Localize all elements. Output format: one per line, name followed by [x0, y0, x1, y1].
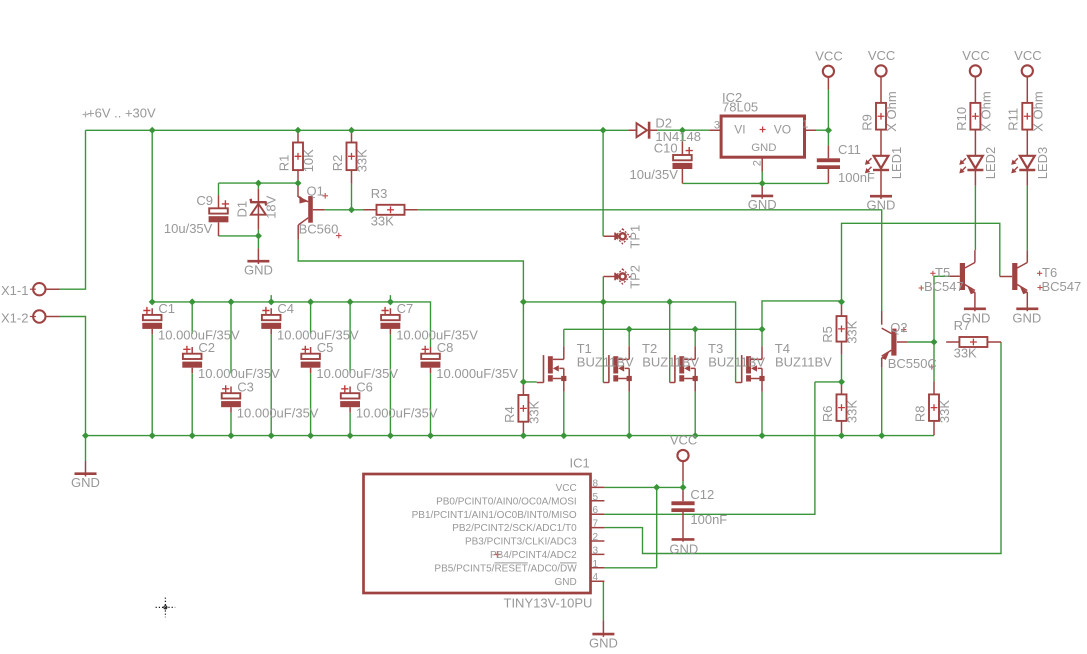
svg-text:TP1: TP1 [627, 225, 642, 249]
svg-text:GND: GND [748, 197, 777, 212]
svg-text:78L05: 78L05 [722, 100, 758, 115]
svg-text:33K: 33K [845, 320, 860, 343]
svg-text:LED3: LED3 [1035, 147, 1050, 180]
svg-text:D1: D1 [234, 201, 249, 218]
svg-text:BC560: BC560 [299, 222, 339, 237]
svg-text:VCC: VCC [670, 433, 697, 448]
svg-text:PB4/PCINT4/ADC2: PB4/PCINT4/ADC2 [490, 550, 577, 561]
svg-text:3: 3 [714, 119, 720, 131]
svg-text:R8: R8 [912, 405, 927, 422]
svg-text:33K: 33K [371, 213, 394, 228]
svg-text:VCC: VCC [868, 48, 895, 63]
svg-text:C6: C6 [356, 380, 373, 395]
svg-text:PB1/PCINT1/AIN1/OC0B/INT0/MISO: PB1/PCINT1/AIN1/OC0B/INT0/MISO [412, 510, 577, 521]
svg-text:10.000uF/35V: 10.000uF/35V [356, 406, 438, 421]
svg-text:1: 1 [593, 559, 599, 570]
svg-text:Q2: Q2 [890, 320, 907, 335]
svg-text:C9: C9 [196, 193, 213, 208]
svg-text:100nF: 100nF [690, 512, 727, 527]
svg-text:PB3/PCINT3/CLKI/ADC3: PB3/PCINT3/CLKI/ADC3 [465, 537, 577, 548]
svg-text:VCC: VCC [962, 48, 989, 63]
svg-text:C12: C12 [690, 487, 714, 502]
svg-text:GND: GND [71, 475, 100, 490]
svg-text:3: 3 [593, 545, 599, 556]
svg-text:GND: GND [867, 197, 896, 212]
svg-text:10u/35V: 10u/35V [164, 221, 213, 236]
svg-text:33K: 33K [527, 400, 542, 423]
svg-text:BUZ11BV: BUZ11BV [708, 355, 765, 370]
svg-text:33K: 33K [355, 149, 370, 172]
svg-text:R6: R6 [820, 405, 835, 422]
svg-text:C2: C2 [198, 340, 215, 355]
svg-text:GND: GND [589, 635, 618, 650]
svg-text:TINY13V-10PU: TINY13V-10PU [504, 596, 593, 611]
svg-text:X Ohm: X Ohm [884, 91, 899, 131]
svg-text:C11: C11 [838, 142, 861, 157]
svg-text:33K: 33K [954, 346, 977, 361]
svg-text:7: 7 [593, 519, 599, 530]
svg-text:BC547: BC547 [1042, 279, 1082, 294]
svg-text:33K: 33K [937, 400, 952, 423]
svg-text:10.000uF/35V: 10.000uF/35V [237, 406, 319, 421]
svg-text:10u/35V: 10u/35V [630, 167, 679, 182]
svg-text:GND: GND [961, 311, 990, 326]
svg-text:PB5/PCINT5/RESET/ADC0/DW: PB5/PCINT5/RESET/ADC0/DW [434, 563, 577, 574]
svg-text:10K: 10K [301, 149, 316, 172]
svg-text:C3: C3 [237, 380, 254, 395]
svg-text:TP2: TP2 [627, 265, 642, 289]
svg-text:VI: VI [734, 123, 745, 137]
svg-text:2: 2 [751, 160, 763, 166]
svg-text:2: 2 [593, 532, 599, 543]
svg-text:R10: R10 [954, 107, 969, 131]
svg-text:BC550C: BC550C [888, 356, 937, 371]
svg-text:4: 4 [593, 572, 599, 583]
svg-text:GND: GND [244, 262, 273, 277]
svg-text:X Ohm: X Ohm [1031, 91, 1046, 131]
svg-text:GND: GND [669, 542, 698, 557]
svg-text:PB2/PCINT2/SCK/ADC1/T0: PB2/PCINT2/SCK/ADC1/T0 [452, 523, 577, 534]
svg-text:VCC: VCC [815, 49, 842, 64]
svg-text:BUZ11BV: BUZ11BV [775, 355, 832, 370]
svg-text:PB0/PCINT0/AIN0/OC0A/MOSI: PB0/PCINT0/AIN0/OC0A/MOSI [436, 496, 577, 507]
svg-text:LED1: LED1 [889, 147, 904, 180]
svg-text:6: 6 [593, 505, 599, 516]
svg-text:VCC: VCC [1014, 48, 1041, 63]
svg-text:C4: C4 [277, 301, 294, 316]
svg-text:8: 8 [593, 478, 599, 489]
svg-text:BUZ11BV: BUZ11BV [642, 355, 699, 370]
svg-text:IC1: IC1 [570, 455, 590, 470]
svg-text:BC547: BC547 [924, 279, 964, 294]
svg-text:GND: GND [554, 577, 576, 588]
svg-text:33K: 33K [845, 400, 860, 423]
svg-text:X Ohm: X Ohm [979, 91, 994, 131]
svg-text:X1-2: X1-2 [1, 310, 28, 325]
svg-text:VO: VO [774, 123, 791, 137]
svg-text:18V: 18V [264, 195, 279, 218]
svg-text:R11: R11 [1006, 108, 1021, 131]
svg-text:X1-1: X1-1 [1, 283, 28, 298]
svg-text:10.000uF/35V: 10.000uF/35V [436, 366, 518, 381]
svg-text:R3: R3 [371, 186, 388, 201]
svg-text:C1: C1 [158, 301, 175, 316]
svg-text:R9: R9 [859, 114, 874, 131]
svg-text:GND: GND [1012, 311, 1041, 326]
svg-text:100nF: 100nF [838, 170, 875, 185]
svg-text:+6V .. +30V: +6V .. +30V [87, 106, 156, 121]
svg-text:R4: R4 [502, 406, 517, 423]
svg-text:R2: R2 [330, 155, 345, 172]
svg-text:C5: C5 [317, 340, 334, 355]
svg-text:R5: R5 [820, 326, 835, 343]
svg-text:5: 5 [593, 492, 599, 503]
svg-text:LED2: LED2 [983, 147, 998, 180]
svg-text:Q1: Q1 [307, 183, 324, 198]
svg-text:VCC: VCC [556, 483, 577, 494]
svg-text:1: 1 [802, 119, 808, 131]
svg-text:BUZ11BV: BUZ11BV [577, 355, 634, 370]
svg-text:GND: GND [751, 142, 776, 154]
svg-text:R1: R1 [276, 155, 291, 172]
svg-text:C8: C8 [437, 340, 454, 355]
svg-text:C7: C7 [397, 301, 414, 316]
svg-text:C10: C10 [654, 141, 678, 156]
